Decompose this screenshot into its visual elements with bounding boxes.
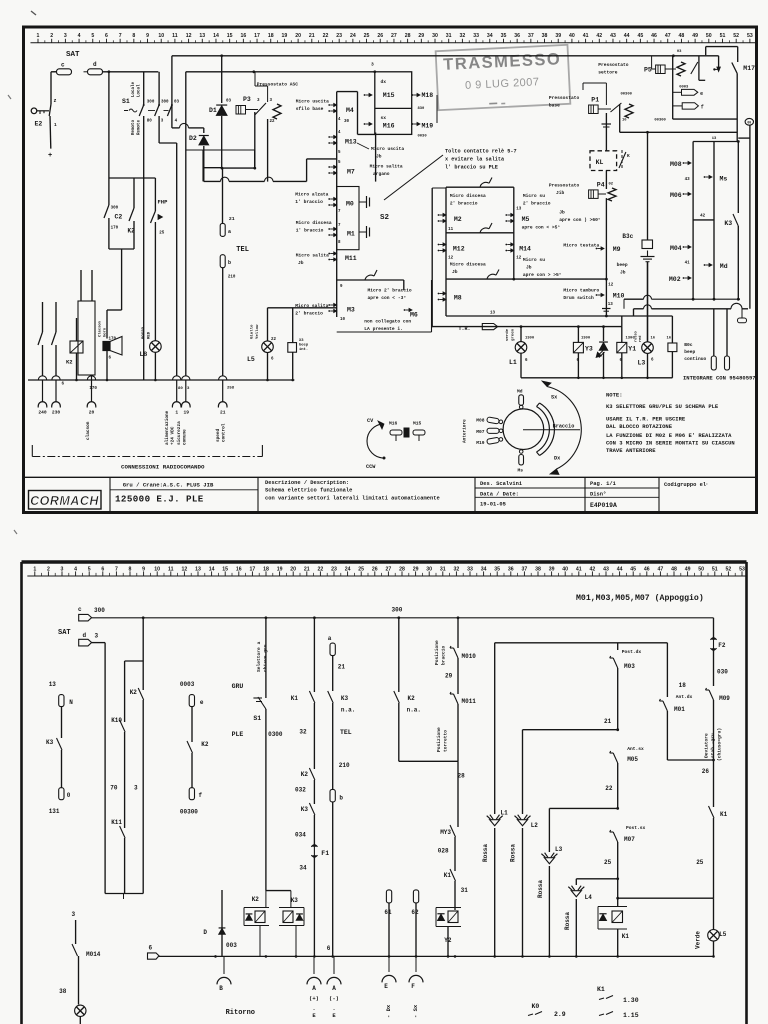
svg-text:131: 131 [49,808,60,815]
svg-text:34: 34 [299,865,307,872]
svg-text:38: 38 [535,566,541,572]
svg-text:9: 9 [146,33,149,39]
svg-text:Pressostato: Pressostato [549,95,580,101]
svg-text:50: 50 [706,33,712,39]
svg-text:1.15: 1.15 [623,1012,639,1019]
svg-text:5: 5 [338,151,341,155]
svg-text:TEL: TEL [340,729,352,736]
svg-text:M17: M17 [743,65,755,72]
svg-text:41: 41 [583,33,589,39]
svg-text:16: 16 [236,566,242,572]
svg-text:apre con < >5°: apre con < >5° [522,225,561,231]
micro M13 [328,136,330,138]
micro M06 [683,193,685,195]
connector hook 20 [87,376,95,380]
svg-text:4: 4 [338,118,341,122]
svg-text:L8: L8 [140,351,148,358]
svg-text:31: 31 [440,566,446,572]
micro chain bus [336,92,338,280]
svg-text:50: 50 [698,566,704,572]
svg-text:E: E [312,1012,316,1019]
svg-text:M03: M03 [624,663,635,670]
svg-text:40: 40 [569,33,575,39]
svg-text:red: red [638,336,643,342]
svg-text:Pag. 1/1: Pag. 1/1 [590,481,616,487]
svg-text:L5: L5 [247,356,255,363]
svg-text:CV: CV [367,418,374,424]
svg-text:1: 1 [54,122,57,128]
svg-text:52: 52 [733,33,739,39]
wire P1 node [605,83,607,105]
svg-text:00300: 00300 [621,93,633,97]
page 2 sheet border [22,560,747,563]
svg-text:M014: M014 [86,951,101,958]
svg-text:K: K [627,153,630,159]
svg-text:Jb: Jb [452,269,458,275]
svg-text:4: 4 [338,131,341,135]
svg-text:39: 39 [549,566,555,572]
svg-text:K3 SELETTORE GRU/PLE SU SCHEMA: K3 SELETTORE GRU/PLE SU SCHEMA PLE [606,403,719,410]
bus 300 page2 [92,617,714,619]
svg-text:35: 35 [501,33,507,39]
svg-text:M9: M9 [613,246,621,253]
svg-text:44: 44 [624,33,630,39]
svg-text:E: E [332,1012,336,1019]
svg-text:apre con > >5°: apre con > >5° [523,272,562,278]
svg-text:K10: K10 [111,717,122,724]
svg-text:a: a [228,229,231,235]
svg-text:10: 10 [154,566,160,572]
svg-text:Jb: Jb [298,260,304,266]
svg-text:53: 53 [739,566,745,572]
svg-text:11: 11 [448,228,454,232]
contact C2 [108,178,110,205]
svg-text:7: 7 [119,33,122,39]
dash-dot radio bracket [32,456,262,458]
svg-text:6: 6 [525,359,528,363]
svg-text:30: 30 [344,120,350,124]
beep box X3 [292,308,294,343]
svg-text:9: 9 [142,566,145,572]
micro M7 [328,166,330,168]
svg-text:K1: K1 [444,872,452,879]
svg-text:18: 18 [679,682,687,689]
svg-text:300: 300 [392,607,403,614]
svg-text:PLE: PLE [232,731,244,738]
svg-text:0003: 0003 [180,681,195,688]
svg-text:30: 30 [432,33,438,39]
svg-text:35: 35 [494,566,500,572]
svg-text:S2: S2 [380,214,390,222]
svg-text:26: 26 [372,566,378,572]
svg-text:K1: K1 [720,811,728,818]
svg-text:M12: M12 [453,246,465,253]
svg-text:3: 3 [61,566,64,572]
svg-text:verde: verde [505,328,510,341]
svg-text:1.30: 1.30 [623,997,639,1004]
svg-text:L1: L1 [509,359,517,366]
svg-text:M13: M13 [345,139,357,146]
svg-text:f: f [701,105,704,111]
svg-text:Tolto contatto relè 5-7: Tolto contatto relè 5-7 [445,149,517,155]
svg-text:P1: P1 [591,97,599,104]
svg-text:Ms: Ms [720,176,728,183]
svg-text:34: 34 [487,33,493,39]
svg-text:1' braccio: 1' braccio [295,199,323,205]
svg-text:Gru / Crane:A.S.C. PLUS JIB: Gru / Crane:A.S.C. PLUS JIB [123,482,214,489]
svg-text:22: 22 [323,33,329,39]
svg-text:20: 20 [89,410,95,416]
svg-text:NOTE:: NOTE: [606,392,623,399]
svg-text:49: 49 [685,566,691,572]
svg-text:Jb: Jb [526,265,532,271]
svg-text:M1: M1 [347,231,355,238]
svg-text:22: 22 [605,785,613,792]
svg-text:51: 51 [712,566,718,572]
svg-text:Remoto: Remoto [132,119,136,135]
svg-text:M08: M08 [670,161,682,168]
svg-text:- Dx: - Dx [385,1004,392,1018]
svg-text:Rossa: Rossa [564,912,571,930]
connector hooks 240 230 [38,376,46,380]
svg-text:base: base [549,103,560,109]
svg-text:Posizione: Posizione [434,640,440,665]
contact Ms [704,176,706,178]
wire rail to M15 box [186,71,375,73]
svg-text:d: d [93,61,97,68]
TRASMESSO ink stamp [436,45,571,110]
connector b page2 [330,789,335,802]
contact K3 [733,214,738,226]
svg-text:K1: K1 [622,933,630,940]
wire lower verticals 240-230 [42,302,44,332]
svg-text:Posizione: Posizione [436,727,442,752]
svg-text:M01: M01 [674,706,685,713]
svg-text:26: 26 [702,768,710,775]
svg-text:F: F [411,983,415,990]
svg-text:4: 4 [78,33,81,39]
svg-text:0300: 0300 [268,731,283,738]
svg-text:6: 6 [327,945,331,952]
svg-text:Selettore a: Selettore a [256,641,262,672]
svg-text:6: 6 [271,358,274,362]
selector box S2 [337,187,359,250]
svg-text:Local: Local [137,84,142,97]
svg-text:beep: beep [299,343,309,348]
micro 2 braccio contact [337,279,404,281]
title block outline [24,476,757,478]
svg-text:(chiuso=gru): (chiuso=gru) [717,728,723,761]
svg-text:1' braccio: 1' braccio [296,228,324,234]
svg-text:P3: P3 [243,96,251,103]
svg-text:Jb: Jb [559,210,565,216]
wire S1 to relay columns [186,149,255,151]
svg-text:K2: K2 [130,689,138,696]
wire b down to bus [222,268,224,376]
svg-text:028: 028 [438,848,449,855]
svg-text:- Sx: - Sx [412,1004,419,1018]
svg-text:LA FUNZIONE DI M02 E M06 E' RE: LA FUNZIONE DI M02 E M06 E' REALIZZATA [606,432,732,439]
svg-text:green: green [511,328,516,341]
svg-text:K2: K2 [66,359,73,366]
svg-text:3: 3 [161,120,164,124]
svg-text:non collegato con: non collegato con [364,319,411,325]
svg-text:003: 003 [226,942,237,949]
svg-text:M16: M16 [389,421,398,427]
wire TR rail corner up [621,316,623,327]
svg-text:17: 17 [254,33,260,39]
micro M16 contacts [364,123,366,125]
svg-text:F2: F2 [718,642,726,649]
svg-text:13: 13 [608,303,614,307]
svg-text:18: 18 [263,566,269,572]
svg-text:int.: int. [299,347,308,352]
svg-text:N: N [69,699,73,706]
svg-text:030: 030 [717,669,728,676]
diode D1 [221,56,223,103]
svg-text:33: 33 [473,33,479,39]
svg-text:M06: M06 [670,192,682,199]
svg-text:37: 37 [528,33,534,39]
svg-text:D: D [203,929,207,936]
lamp L1 chain [494,643,496,814]
svg-text:stab.-gru: stab.-gru [710,733,716,758]
svg-text:Micro alzata: Micro alzata [295,192,328,198]
contact K2 mid [133,178,135,208]
svg-text:43: 43 [603,566,609,572]
micro M02 [683,277,685,279]
svg-text:.: . [312,1005,315,1012]
svg-text:Disn°: Disn° [590,491,606,497]
svg-text:42: 42 [596,33,602,39]
svg-text:300: 300 [94,607,105,614]
svg-text:M01,M03,M05,M07 (Appoggio): M01,M03,M05,M07 (Appoggio) [576,593,704,603]
svg-text:LA presente i.: LA presente i. [364,326,403,332]
svg-text:3: 3 [72,911,76,918]
svg-text:41: 41 [685,262,691,266]
svg-text:23: 23 [336,33,342,39]
wire E2 down to + [49,116,52,149]
micro M09 [709,690,714,700]
contact K1 my3 [450,869,456,881]
svg-text:M010: M010 [462,653,477,660]
contact bracket P5 [698,56,700,81]
svg-text:FHP: FHP [158,199,169,206]
svg-text:8: 8 [338,241,341,245]
svg-text:3: 3 [64,33,67,39]
svg-text:CORMACH: CORMACH [30,494,99,508]
svg-text:b: b [228,260,231,266]
svg-text:00300: 00300 [180,809,198,816]
svg-text:02: 02 [609,183,614,187]
svg-text:170: 170 [89,387,97,391]
svg-text:K1: K1 [597,986,605,993]
svg-text:13: 13 [49,681,57,688]
svg-text:RED: RED [148,331,152,339]
svg-text:034: 034 [295,832,306,839]
svg-text:+: + [48,152,52,160]
contact K2 na [398,618,400,692]
svg-text:15: 15 [222,566,228,572]
svg-text:210: 210 [339,762,350,769]
svg-text:L3: L3 [638,360,646,367]
wire upper loop [705,47,707,56]
pill Ms bottom [519,450,523,454]
svg-text:K2: K2 [408,695,416,702]
svg-text:4: 4 [175,120,178,124]
svg-text:19: 19 [184,410,190,416]
wire C2 K2 join [109,248,134,250]
svg-text:Ant.sx: Ant.sx [627,746,644,752]
svg-text:apre con ) >60°: apre con ) >60° [559,217,601,223]
svg-text:SAT: SAT [58,629,71,637]
svg-text:M5: M5 [522,216,530,223]
svg-text:Pressostato: Pressostato [598,62,629,68]
svg-text:46: 46 [651,33,657,39]
svg-text:M08: M08 [476,418,485,424]
svg-text:Micro uscita: Micro uscita [371,146,404,152]
svg-text:K3: K3 [291,897,299,904]
svg-text:Braccio: Braccio [553,424,575,430]
svg-text:Jb: Jb [620,270,626,276]
svg-text:20: 20 [295,33,301,39]
integration pills [713,309,715,356]
svg-text:P5: P5 [644,67,652,74]
svg-text:4: 4 [74,566,77,572]
svg-text:52: 52 [726,566,732,572]
svg-text:48: 48 [679,33,685,39]
wire KL down [605,171,607,190]
svg-text:1: 1 [175,410,178,416]
micro box M3 M6 [336,280,338,317]
connector E dx [386,890,391,903]
fuse F1 [313,844,315,858]
svg-text:80: 80 [147,120,153,124]
svg-text:CONNESSIONI RADIOCOMANDO: CONNESSIONI RADIOCOMANDO [121,464,205,471]
svg-text:12: 12 [182,566,188,572]
contact K of KL [621,150,623,168]
svg-text:Micro salita: Micro salita [296,253,329,259]
svg-text:TRASMESSO: TRASMESSO [443,50,562,74]
micro M03 chain [617,643,619,650]
svg-text:M3: M3 [347,307,355,314]
svg-text:Micro discesa: Micro discesa [296,220,332,226]
svg-text:K2: K2 [201,741,209,748]
svg-text:(-): (-) [329,995,339,1002]
svg-text:2' braccio: 2' braccio [450,201,478,207]
svg-text:34: 34 [481,566,487,572]
wire B3c to lamp row [647,262,649,341]
svg-text:Clacson: Clacson [98,320,103,337]
svg-text:9: 9 [340,285,343,289]
svg-text:Micro su: Micro su [523,193,545,199]
svg-text:80: 80 [178,387,183,391]
svg-text:M0: M0 [346,201,354,208]
svg-text:M011: M011 [462,698,477,705]
svg-text:T.R.: T.R. [458,326,470,332]
contact FHP [154,178,156,211]
svg-text:M07: M07 [476,429,485,435]
main bottom bus [28,379,294,381]
svg-text:12: 12 [448,257,454,261]
svg-text:beep: beep [684,349,695,355]
svg-text:X3: X3 [299,339,304,343]
svg-text:M10: M10 [613,293,625,300]
svg-text:3: 3 [270,99,273,103]
svg-text:36: 36 [514,33,520,39]
svg-text:45: 45 [637,33,643,39]
svg-text:125000 E.J. PLE: 125000 E.J. PLE [115,494,204,505]
svg-text:8: 8 [132,33,135,39]
micro M11 [328,253,330,255]
lamp L2 chain [522,730,524,814]
svg-text:42: 42 [700,215,706,219]
micro M04 [683,246,685,248]
svg-text:Rossa: Rossa [482,844,489,862]
svg-text:29: 29 [418,33,424,39]
svg-text:03: 03 [226,100,232,104]
svg-text:7: 7 [338,224,341,228]
svg-text:30: 30 [426,566,432,572]
svg-text:Codigruppo el‧: Codigruppo el‧ [664,482,708,488]
svg-text:L2: L2 [531,822,539,829]
svg-text:22: 22 [318,566,324,572]
svg-text:USARE IL T.R. PER USCIRE: USARE IL T.R. PER USCIRE [606,416,686,423]
wire d-branch vertical [108,72,110,178]
wire right bus 299 [624,298,644,300]
svg-text:28: 28 [405,33,411,39]
svg-text:21: 21 [220,410,226,416]
svg-text:Deviatore: Deviatore [704,733,710,758]
svg-text:22: 22 [271,338,277,342]
rotation braccio pointer [523,429,580,431]
svg-text:sicurezza: sicurezza [177,421,182,445]
svg-text:clacson: clacson [86,421,91,440]
svg-text:M18: M18 [422,92,434,99]
svg-text:47: 47 [658,566,664,572]
svg-text:2: 2 [47,566,50,572]
svg-text:53: 53 [747,33,753,39]
micro box M2 M5 M12 M14 [446,186,514,188]
svg-text:Verde: Verde [695,931,702,949]
svg-text:rosso: rosso [634,331,639,342]
svg-text:14: 14 [209,566,215,572]
svg-text:21: 21 [338,664,346,671]
wire M15 box drop [375,133,377,182]
svg-text:27: 27 [386,566,392,572]
svg-text:6: 6 [62,383,65,387]
svg-text:A: A [332,985,336,992]
svg-text:M14: M14 [519,246,531,253]
svg-text:11: 11 [168,566,174,572]
svg-text:300: 300 [111,207,119,211]
svg-text:M4: M4 [346,107,354,114]
svg-text:47: 47 [665,33,671,39]
svg-text:Ms: Ms [518,468,524,474]
connector A minus [333,956,335,974]
svg-text:E2: E2 [35,121,43,128]
svg-text:C2: C2 [115,214,123,221]
svg-text:19: 19 [282,33,288,39]
radio receiver box [78,301,95,375]
svg-text:830: 830 [418,107,426,111]
svg-text:1: 1 [37,33,40,39]
wire main rail from d [103,71,159,73]
svg-text:Dx: Dx [554,456,560,462]
svg-text:10: 10 [340,318,346,322]
svg-text:e: e [700,91,703,97]
top appoggio box rail [495,642,668,644]
